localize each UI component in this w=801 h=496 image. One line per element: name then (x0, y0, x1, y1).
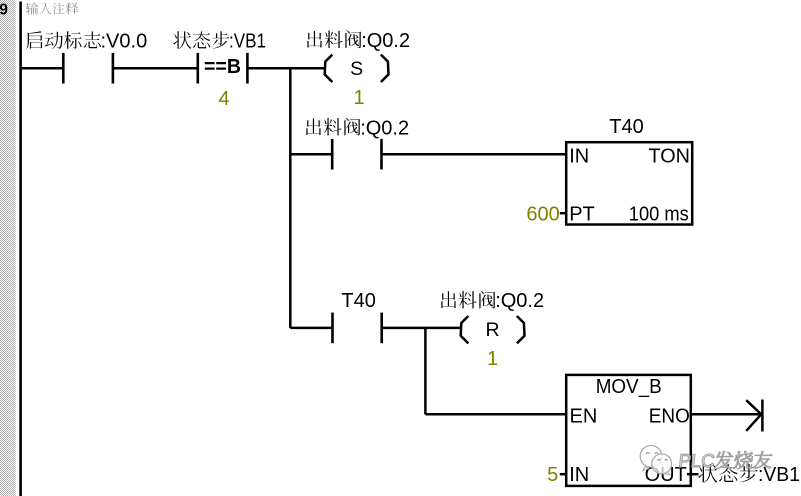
svg-text:MOV_B: MOV_B (596, 376, 662, 398)
label 状态步:VB1 (OUT operand) (698, 463, 800, 486)
tick: 5 to IN pin (560, 473, 567, 476)
set count 1 (353, 87, 364, 109)
svg-text:IN: IN (569, 145, 589, 167)
svg-text::VB1: :VB1 (229, 31, 266, 53)
svg-text:ENO: ENO (649, 405, 690, 427)
svg-text:T40: T40 (609, 116, 643, 138)
rung continuation arrow (746, 400, 762, 432)
wire: rail to contact V0.0 (21, 67, 64, 70)
input value 5 (547, 464, 558, 486)
label 状态步:VB1 (173, 31, 266, 53)
box MOV_B (566, 375, 691, 486)
wire: contact Q0.2 to TON box (382, 153, 567, 156)
timer box TON T40 (566, 142, 692, 225)
svg-text:T40: T40 (341, 290, 375, 312)
svg-text:IN: IN (569, 464, 589, 486)
watermark logo (chat bubbles) (640, 446, 671, 475)
svg-text::Q0.2: :Q0.2 (361, 30, 410, 52)
svg-text:1: 1 (487, 348, 498, 370)
svg-text:R: R (486, 319, 500, 341)
svg-text:1: 1 (353, 87, 364, 109)
label 出料阀:Q0.2 (S coil) (307, 30, 410, 52)
svg-text:9: 9 (0, 1, 8, 18)
svg-text:4: 4 (218, 88, 229, 110)
wire: contact V0.0 to compare contact (113, 67, 198, 70)
coil R 出料阀:Q0.2 (461, 316, 525, 343)
label 出料阀:Q0.2 (row2 contact) (306, 118, 409, 140)
network number 9 (0, 1, 8, 18)
contact T40 (normally open) (333, 313, 382, 344)
network comment 输入注释 (26, 2, 78, 14)
svg-text::V0.0: :V0.0 (101, 31, 148, 53)
svg-text:5: 5 (547, 464, 558, 486)
watermark text PLC发烧友 (678, 450, 773, 471)
svg-text:TON: TON (649, 145, 691, 167)
svg-text:100 ms: 100 ms (629, 204, 689, 226)
compare value 4 (218, 88, 229, 110)
wire: junction to contact Q0.2 (290, 153, 332, 156)
svg-text::Q0.2: :Q0.2 (495, 290, 544, 312)
tick: OUT pin to operand (687, 473, 699, 476)
contact 出料阀:Q0.2 (normally open) (332, 139, 381, 170)
svg-text:PT: PT (569, 204, 595, 226)
left power rail (19, 2, 22, 496)
tick: 600 to PT pin (560, 212, 567, 215)
label 出料阀:Q0.2 (R coil) (441, 290, 544, 312)
svg-text:600: 600 (526, 204, 559, 226)
svg-text:==B: ==B (204, 56, 241, 78)
svg-text:EN: EN (570, 405, 598, 427)
compare contact ==B 状态步:VB1 (198, 53, 248, 84)
svg-text::Q0.2: :Q0.2 (360, 118, 409, 140)
timer operand T40 (609, 116, 643, 138)
label 启动标志:V0.0 (26, 31, 147, 53)
label T40 (contact) (341, 290, 375, 312)
branch junction vertical (row3 to MOV_B EN) (424, 328, 427, 415)
coil S 出料阀:Q0.2 (325, 55, 389, 82)
branch junction vertical (row1 to row3) (289, 68, 292, 328)
svg-text::VB1: :VB1 (758, 463, 800, 486)
svg-text:S: S (350, 58, 363, 80)
svg-text:PLC: PLC (678, 450, 716, 471)
contact 启动标志:V0.0 (normally open) (63, 53, 113, 84)
preset value 600 (526, 204, 559, 226)
reset count 1 (487, 348, 498, 370)
wire: ENO to arrow (692, 413, 762, 416)
network number gutter (dithered strip) (0, 0, 16, 496)
IN/OUT row of MOV_B (569, 464, 687, 486)
wire: contact T40 to R coil (382, 327, 460, 330)
wire: junction to MOV_B EN (425, 413, 566, 416)
wire: junction elbow to contact T40 (290, 327, 332, 330)
wire: compare contact to S coil (247, 67, 324, 70)
